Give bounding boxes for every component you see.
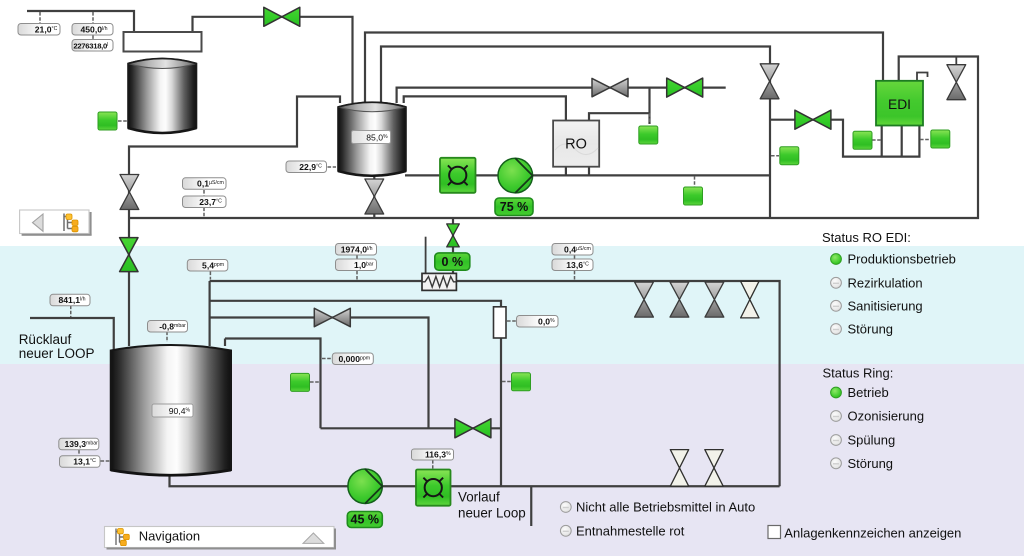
label box 13,6 C (552, 259, 593, 271)
svg-text:Navigation: Navigation (139, 529, 200, 544)
tick indicator K5 (920, 139, 930, 141)
filter F1 column (494, 307, 507, 338)
wire RO permeate up (589, 88, 650, 124)
wire heater left probe line (425, 237, 427, 274)
label tank T2 value 85,0 (352, 131, 391, 144)
status lamp Stoerung Ring (831, 456, 893, 471)
svg-text:Betrieb: Betrieb (848, 385, 889, 400)
valve V5 gray horizontal concentrate (592, 78, 628, 96)
valve V8 gray vertical EDI vent (947, 65, 966, 100)
background lavender bottom band (0, 364, 1024, 556)
tick indicator K3 (771, 155, 779, 157)
tick box 0,000 (322, 358, 331, 360)
indicator K8 bypass line (512, 373, 531, 391)
background cyan middle band (0, 246, 1024, 364)
svg-text:Sanitisierung: Sanitisierung (848, 298, 923, 313)
valve V18 white loop bottom 2 (705, 450, 723, 487)
heater W1 (422, 273, 456, 290)
svg-text:EDI: EDI (888, 97, 911, 112)
svg-text:Störung: Störung (848, 322, 894, 337)
status lamp Betrieb (831, 385, 889, 400)
svg-text:Rezirkulation: Rezirkulation (848, 275, 923, 290)
indicator K2 RO permeate (639, 126, 658, 144)
wire loop supply header right of heater (457, 281, 780, 486)
svg-text:neuer Loop: neuer Loop (458, 506, 526, 521)
label box 21,0 C (18, 24, 60, 36)
valve V12 small green heater stem (447, 224, 460, 247)
wire bypass join to valve V11 (321, 338, 502, 486)
status lamp Rezirkulation (831, 275, 923, 290)
wire long return header (129, 57, 978, 219)
svg-text:Produktionsbetrieb: Produktionsbetrieb (848, 252, 956, 267)
label box 450,0 l/h (72, 24, 113, 36)
label box 22,9 C (286, 161, 327, 173)
checkbox Anlagenkennzeichen (768, 526, 961, 541)
wire rücklauf inlet (30, 318, 114, 350)
svg-text:Anlagenkennzeichen anzeigen: Anlagenkennzeichen anzeigen (784, 526, 961, 541)
wire tank3 inlet stub (209, 281, 211, 346)
svg-text:Vorlauf: Vorlauf (458, 490, 500, 505)
svg-text:Entnahmestelle rot: Entnahmestelle rot (576, 523, 685, 538)
button back navigation (20, 210, 92, 236)
label box 1974,0 l/h (336, 244, 377, 256)
valve V3 green vertical left (120, 238, 138, 272)
wire valve V8 vent tick (955, 57, 957, 65)
wire tank3 top takeoff (225, 339, 321, 429)
status lamp Spuelung (831, 433, 896, 448)
tick indicator K1 (118, 120, 127, 122)
svg-text:Rücklauf: Rücklauf (19, 332, 72, 347)
svg-text:RO: RO (565, 137, 587, 153)
indicator K3 riser (780, 147, 799, 165)
wire EDI vent hook (917, 73, 928, 81)
tick indicator K6 (694, 176, 696, 187)
tick box 0,1/23,7 (203, 190, 205, 217)
tick indicator K7 (310, 381, 320, 383)
label box 0,4 uS/cm (552, 244, 593, 256)
valve V7 gray vertical riser (760, 64, 779, 99)
indicator K5 EDI right (931, 130, 950, 148)
svg-text:Störung: Störung (848, 456, 894, 471)
svg-text:Spülung: Spülung (848, 433, 896, 448)
wire top feed line (27, 11, 134, 32)
tick box 0,0 (507, 320, 516, 322)
label box 0,000 ppm (332, 353, 373, 365)
label box 139,3 mbar (59, 438, 99, 450)
valve V17 white loop bottom 1 (670, 450, 688, 487)
svg-text:45 %: 45 % (351, 513, 380, 527)
label box 13,1 C (60, 456, 101, 468)
tank T1 lid (124, 32, 202, 52)
background white top band (0, 0, 1024, 246)
label pump P1 75% (495, 198, 533, 216)
valve V2 gray vertical left upper (120, 175, 139, 210)
pump P2 (348, 469, 382, 503)
UV unit L1 (440, 158, 476, 193)
wire filter feed line (210, 301, 501, 307)
connector ticks (40, 12, 930, 469)
button navigation bar (105, 527, 337, 550)
label box 23,7 C (183, 196, 227, 208)
label 116,3 (412, 449, 454, 460)
EDI unit U2 (876, 81, 923, 126)
wire tank2 bottom stub (373, 172, 375, 218)
label box 2276318,0 l (72, 40, 113, 52)
tick box 116,3 (432, 460, 434, 469)
label tank T3 value 90,4 (152, 404, 193, 417)
valve V14 gray loop top 2 (670, 282, 689, 317)
status lamp Ozonisierung (831, 409, 925, 424)
valve V6 green horizontal concentrate (667, 78, 703, 97)
indicator K1 tank1 (98, 112, 117, 130)
wire tank1 lid to tank2 top via valve V1 (193, 17, 353, 103)
wire tank2 to concentrate valves (line C) (397, 88, 726, 103)
label box -0,8 mbar (148, 321, 188, 333)
svg-text:0 %: 0 % (442, 255, 464, 269)
tank T2 (338, 102, 406, 176)
label box 0,1 uS/cm (183, 178, 227, 190)
label heater 0% (435, 253, 470, 270)
tick box 139,3/13,1 (79, 450, 110, 461)
tick box 0,4/13,6 (574, 255, 576, 280)
tick indicator K8 (502, 381, 511, 383)
valve V13 gray loop top 1 (635, 282, 654, 317)
label box 1,0 bar (336, 259, 377, 271)
UV unit L2 (416, 470, 451, 506)
svg-text:Status RO EDI:: Status RO EDI: (822, 230, 911, 245)
tick box -0,8 (166, 332, 168, 343)
wire tank1 drain to tank3 via valves (129, 97, 340, 347)
valve V15 gray loop top 3 (705, 282, 724, 317)
tank T3 (111, 345, 231, 475)
wire tank2 to RO feed (404, 96, 566, 120)
indicator K7 takeoff line (291, 373, 310, 391)
label box 5,4 ppm (187, 260, 228, 272)
wire loop supply header left of heater (210, 280, 422, 282)
valve V1 green horizontal top (264, 7, 300, 26)
svg-text:neuer LOOP: neuer LOOP (19, 346, 95, 361)
valve V11 green horizontal bypass (455, 419, 491, 438)
wire RO bottom stubs (566, 167, 589, 176)
wire ozone line via valve V10 (210, 318, 429, 429)
indicator K6 process line (684, 187, 703, 205)
tick box 22,9 (328, 166, 337, 168)
label box 841,1 l/h (50, 294, 90, 306)
wire vorlauf divider (530, 486, 532, 526)
tick indicator K4 (872, 139, 881, 141)
status lamp Produktionsbetrieb (831, 252, 956, 267)
valve V10 gray horizontal ozone line (314, 308, 350, 326)
tick box 21,0 (39, 12, 41, 23)
svg-text:Ozonisierung: Ozonisierung (848, 409, 925, 424)
svg-text:Status Ring:: Status Ring: (823, 366, 894, 381)
svg-text:2276318,0l: 2276318,0l (73, 41, 108, 50)
wire process line tank2 to right riser (405, 174, 770, 176)
wire heater stem (452, 218, 454, 274)
indicator K4 EDI left (853, 131, 872, 149)
svg-text:Nicht alle Betriebsmittel in A: Nicht alle Betriebsmittel in Auto (576, 500, 755, 515)
valve V9 green horizontal EDI feed (795, 110, 831, 129)
tank T1 (128, 59, 197, 134)
wire EDI feed loop (770, 120, 919, 157)
pump P1 (498, 158, 533, 193)
valve V16 white loop top 4 (741, 281, 759, 318)
tick box 1974/1,0 (356, 255, 358, 280)
status lamp Entnahmestelle (560, 523, 684, 538)
valve V4 gray vertical under tank T2 (365, 179, 384, 214)
tick box 450,0 (92, 12, 94, 39)
status lamp Stoerung RO (831, 322, 893, 337)
RO unit U1 (553, 121, 599, 167)
label pump P2 45% (347, 512, 382, 528)
wire tank2 to right header via valve V7 (line B) (381, 47, 770, 218)
tick box 5,4 (209, 272, 211, 280)
tick box 841,1 (70, 306, 72, 318)
wire tank2 to EDI top (line A) (365, 33, 883, 104)
status lamp Sanitisierung (831, 298, 923, 313)
svg-text:75 %: 75 % (500, 200, 529, 214)
label box 0,0 pct (517, 316, 559, 328)
status lamp Betriebsmittel (560, 500, 755, 515)
wire loop bottom header (170, 474, 780, 486)
tick indicator K2 (649, 113, 651, 124)
